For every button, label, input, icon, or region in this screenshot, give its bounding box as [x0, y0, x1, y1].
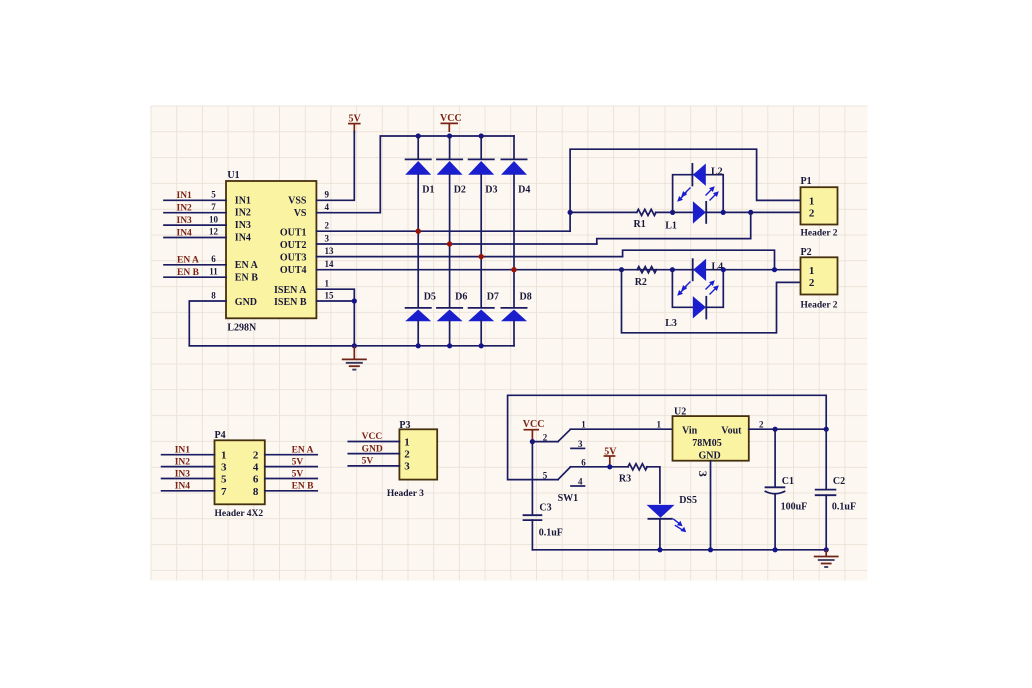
junction L4 left — [670, 267, 675, 272]
svg-text:OUT1: OUT1 — [280, 228, 307, 239]
red junction OUT1-D1 — [416, 229, 421, 234]
junction U2GND-rail — [708, 547, 713, 552]
svg-text:VCC: VCC — [523, 419, 545, 430]
junction C2-rail — [824, 547, 829, 552]
ic U2 78M05 — [673, 407, 749, 462]
svg-text:D2: D2 — [454, 185, 466, 196]
wire P4 pin7 — [162, 490, 215, 492]
wire OUT1 — [316, 230, 570, 232]
svg-text:GND: GND — [699, 451, 721, 462]
svg-text:5: 5 — [543, 471, 548, 481]
wire P4 pin8 — [265, 490, 317, 492]
svg-text:EN B: EN B — [235, 273, 258, 284]
junction channel2 left node — [619, 267, 624, 272]
svg-text:R2: R2 — [635, 277, 647, 288]
wire P4 pin2 — [265, 454, 317, 456]
svg-text:1: 1 — [809, 195, 815, 207]
wire EN B — [164, 276, 226, 278]
wire switch pin2 — [532, 441, 558, 443]
svg-text:U2: U2 — [674, 407, 686, 418]
svg-text:L298N: L298N — [227, 323, 257, 334]
LED L4 emission arrows (pointing up-right) — [706, 280, 719, 294]
svg-text:OUT3: OUT3 — [280, 253, 307, 264]
svg-text:C3: C3 — [539, 503, 551, 514]
wire R3 to DS5 — [647, 467, 660, 503]
wire OUT4 — [316, 269, 621, 271]
svg-text:3: 3 — [221, 462, 227, 474]
svg-text:2: 2 — [325, 221, 330, 231]
wire ISEN A — [316, 289, 354, 346]
junction L1 left — [670, 210, 675, 215]
wire P4 pin1 — [162, 454, 215, 456]
svg-text:VSS: VSS — [288, 195, 307, 206]
svg-text:2: 2 — [253, 450, 259, 462]
svg-text:D8: D8 — [520, 292, 532, 303]
svg-text:7: 7 — [221, 486, 227, 498]
svg-text:1: 1 — [221, 450, 227, 462]
LED L2 emission arrows (pointing up-right) — [706, 186, 719, 200]
wire channel1 top rail to P1 pin1 — [570, 149, 800, 212]
svg-text:2: 2 — [759, 420, 764, 430]
wire P3 pin1 — [348, 441, 399, 443]
svg-text:D5: D5 — [424, 292, 436, 303]
svg-text:P4: P4 — [215, 430, 226, 441]
svg-text:7: 7 — [211, 202, 216, 212]
wire switch pin6 row — [570, 466, 628, 468]
svg-text:VCC: VCC — [440, 113, 462, 124]
wire P3 pin3 — [348, 465, 399, 467]
red junction OUT2-D2 — [447, 241, 452, 246]
capacitor C3 (0.1uF) — [523, 442, 563, 550]
svg-text:ISEN A: ISEN A — [274, 285, 307, 296]
ground symbol power section — [814, 550, 839, 567]
wire U1 GND pin8 to ground rail — [189, 301, 354, 346]
svg-text:VS: VS — [294, 208, 307, 219]
svg-text:IN3: IN3 — [235, 220, 251, 231]
junction Vout-C2 — [824, 427, 829, 432]
svg-text:1: 1 — [325, 278, 330, 288]
svg-text:6: 6 — [253, 474, 259, 486]
svg-text:4: 4 — [325, 202, 330, 212]
junction dots ground rail — [352, 343, 484, 348]
wire P4 pin6 — [265, 478, 317, 480]
ground symbol upper — [342, 346, 367, 370]
junction DS5-rail — [657, 547, 662, 552]
svg-text:P3: P3 — [399, 420, 410, 431]
svg-text:Vin: Vin — [682, 426, 698, 437]
red junction OUT4-D4 — [511, 267, 516, 272]
LED L1 emission arrows (pointing down-left) — [677, 188, 690, 202]
svg-text:Header 3: Header 3 — [387, 489, 424, 499]
svg-text:5: 5 — [211, 190, 216, 200]
wire U2 GND pin3 — [710, 461, 712, 550]
svg-text:2: 2 — [543, 433, 548, 443]
svg-text:C2: C2 — [833, 476, 845, 487]
svg-text:3: 3 — [325, 233, 330, 243]
wire OUT3 jog to channel2 rail — [623, 250, 775, 270]
svg-text:12: 12 — [209, 227, 219, 237]
svg-text:R1: R1 — [634, 219, 646, 230]
LED L1 (bottom, pointing right) — [665, 201, 706, 231]
header P4 — [215, 430, 265, 519]
wire OUT1 riser to channel1 row — [569, 212, 571, 231]
svg-text:OUT4: OUT4 — [280, 265, 307, 276]
power symbol 5V switch — [604, 447, 618, 467]
wire power outer loop (5V feedback to switch pin5) — [508, 395, 827, 479]
junction Vout-C1 — [773, 427, 778, 432]
diode D4 — [501, 136, 531, 307]
svg-text:L2: L2 — [711, 167, 723, 178]
wire U2 Vout row — [749, 428, 826, 430]
junction ISEN B — [352, 298, 357, 303]
svg-text:100uF: 100uF — [781, 501, 808, 512]
resistor R3 — [619, 464, 647, 485]
wire channel2 return loop to P2 pin2 — [622, 270, 801, 333]
svg-text:5: 5 — [221, 474, 227, 486]
wire P3 pin2 — [348, 453, 399, 455]
wire OUT3 — [316, 256, 622, 258]
wire P4 pin5 — [162, 478, 215, 480]
wire channel2 main row — [622, 269, 801, 271]
svg-text:14: 14 — [325, 259, 335, 269]
svg-text:C1: C1 — [782, 476, 794, 487]
diode D1 — [405, 136, 435, 307]
LED L2 (top, pointing left) — [692, 163, 722, 186]
svg-text:9: 9 — [325, 190, 330, 200]
wire IN4 — [164, 237, 226, 239]
svg-text:10: 10 — [209, 214, 219, 224]
svg-text:L3: L3 — [665, 318, 677, 329]
diode D7 — [468, 292, 499, 346]
svg-text:EN A: EN A — [235, 260, 259, 271]
svg-text:Header 2: Header 2 — [801, 301, 838, 311]
LED DS5 emission arrows (pointing down-right) — [673, 519, 686, 532]
svg-text:3: 3 — [404, 461, 410, 473]
svg-text:78M05: 78M05 — [692, 438, 721, 449]
svg-text:6: 6 — [211, 254, 216, 264]
wire channel1 main row — [570, 211, 637, 213]
svg-text:0.1uF: 0.1uF — [832, 501, 856, 512]
svg-text:L1: L1 — [665, 220, 677, 231]
wire channel1 row to P1 pin2 — [751, 211, 801, 213]
diode D2 — [436, 136, 466, 307]
svg-text:SW1: SW1 — [558, 493, 579, 504]
wire P4 pin3 — [162, 466, 215, 468]
svg-text:ISEN B: ISEN B — [274, 297, 307, 308]
resistor R2 — [635, 267, 657, 288]
svg-text:2: 2 — [809, 208, 815, 220]
svg-text:IN1: IN1 — [235, 195, 251, 206]
svg-text:R3: R3 — [619, 473, 631, 484]
svg-text:3: 3 — [578, 439, 583, 449]
junction channel1 P1pin2 node — [748, 210, 753, 215]
ic U1 L298N — [226, 170, 316, 333]
svg-text:D3: D3 — [485, 185, 497, 196]
svg-text:11: 11 — [209, 267, 218, 277]
wire switch pin1 to U2 Vin — [570, 428, 672, 430]
wire IN3 — [164, 224, 226, 226]
power symbol 5V top — [348, 113, 362, 133]
svg-text:P1: P1 — [801, 176, 812, 187]
svg-text:3: 3 — [696, 471, 710, 477]
diode D5 — [405, 292, 436, 346]
wire LED pair loop channel2 — [672, 270, 723, 308]
svg-text:OUT2: OUT2 — [280, 240, 307, 251]
svg-text:1: 1 — [581, 420, 586, 430]
junction dots on VCC rail — [416, 133, 484, 138]
switch SW1 — [543, 420, 586, 504]
wire EN A — [164, 264, 226, 266]
junction channel1 left node — [568, 210, 573, 215]
power symbol VCC switch — [523, 419, 545, 442]
svg-text:15: 15 — [325, 290, 335, 300]
capacitor C2 (0.1uF) — [815, 429, 856, 550]
svg-text:8: 8 — [211, 290, 216, 300]
svg-text:U1: U1 — [227, 170, 239, 181]
svg-text:1: 1 — [404, 436, 410, 448]
wire IN1 — [164, 199, 226, 201]
svg-text:6: 6 — [581, 457, 586, 467]
header P1 — [801, 176, 838, 239]
svg-text:D6: D6 — [455, 292, 467, 303]
svg-text:4: 4 — [253, 462, 259, 474]
junction VCC node — [530, 439, 535, 444]
svg-text:Header 2: Header 2 — [801, 229, 838, 239]
svg-text:D1: D1 — [422, 185, 434, 196]
svg-text:IN2: IN2 — [235, 208, 251, 219]
svg-text:1: 1 — [657, 420, 662, 430]
junction 5V node — [607, 464, 612, 469]
LED L4 (top, pointing left) — [693, 258, 723, 281]
wire ground rail upper section — [189, 345, 514, 347]
svg-text:DS5: DS5 — [679, 495, 697, 506]
wire VS to VCC rail — [316, 136, 514, 213]
wire P4 pin4 — [265, 466, 317, 468]
wire R1 to L1 — [656, 211, 673, 213]
power symbol VCC top — [440, 113, 462, 132]
wire power ground rail — [532, 549, 826, 551]
header P3 — [387, 420, 437, 499]
svg-text:Header 4X2: Header 4X2 — [215, 509, 264, 519]
wire VSS to 5V — [316, 132, 354, 201]
svg-text:8: 8 — [253, 486, 259, 498]
U1 left pin numbers — [209, 190, 219, 301]
svg-text:13: 13 — [325, 246, 335, 256]
LED DS5 (pointing down) — [647, 495, 697, 550]
wire L1 row — [673, 211, 751, 213]
svg-text:P2: P2 — [801, 247, 812, 258]
red junction OUT3-D3 — [479, 254, 484, 259]
U1 right pin numbers — [325, 190, 335, 301]
wire IN2 — [164, 212, 226, 214]
svg-text:Vout: Vout — [721, 426, 742, 437]
wire OUT2 — [316, 243, 596, 245]
diode D8 — [501, 292, 532, 346]
junction L4 right — [721, 267, 726, 272]
header P2 — [801, 247, 838, 311]
wire LED pair loop channel1 — [673, 175, 724, 213]
diode D6 — [436, 292, 467, 346]
wire channel1 return to OUT2 — [597, 212, 751, 244]
svg-text:2: 2 — [809, 277, 815, 289]
capacitor C1 (polarized 100uF) — [765, 429, 808, 550]
svg-text:GND: GND — [235, 297, 257, 308]
wire ISEN B — [316, 300, 354, 302]
svg-text:2: 2 — [404, 448, 410, 460]
junction channel2 P2pin1 node — [772, 267, 777, 272]
svg-text:0.1uF: 0.1uF — [539, 528, 563, 539]
junction L1 right — [721, 210, 726, 215]
svg-text:VCC: VCC — [362, 432, 383, 442]
svg-text:D4: D4 — [518, 185, 530, 196]
diode D3 — [468, 136, 498, 307]
resistor R1 — [634, 209, 657, 230]
junction C1-rail — [773, 547, 778, 552]
svg-text:D7: D7 — [487, 292, 499, 303]
svg-text:1: 1 — [809, 265, 815, 277]
svg-text:IN4: IN4 — [235, 233, 251, 244]
LED L3 (bottom, pointing right) — [665, 296, 706, 329]
svg-text:4: 4 — [578, 476, 583, 486]
LED L3 emission arrows (pointing down-left) — [677, 282, 690, 296]
